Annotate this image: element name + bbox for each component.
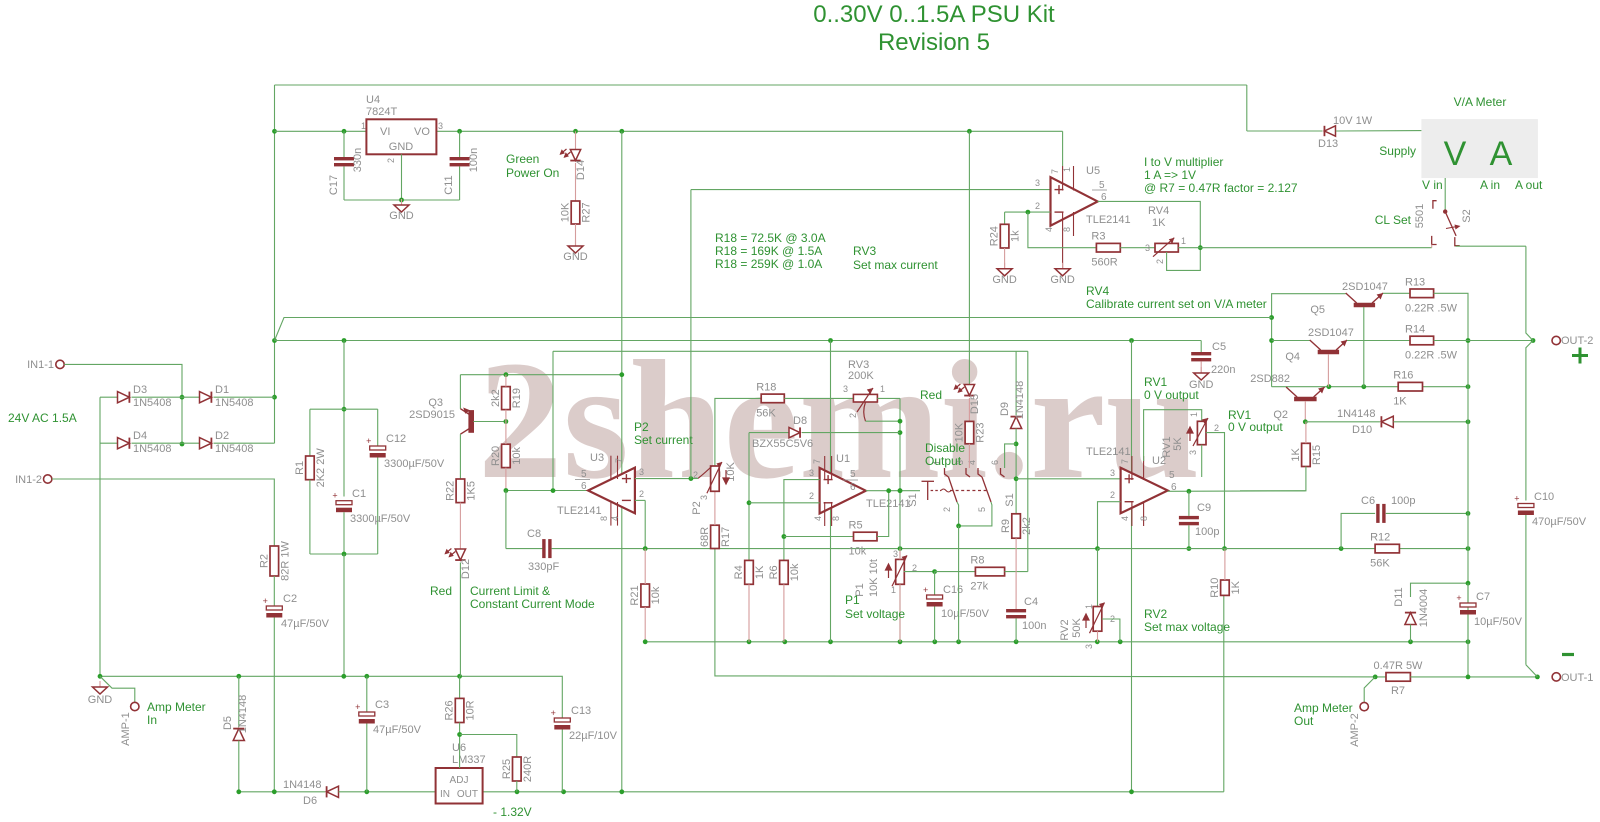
wire D13 to meter — [1336, 130, 1422, 132]
capacitor C2 47uF/50V — [263, 596, 283, 618]
node R19 top — [504, 372, 509, 377]
wire R18 to RV3 — [784, 397, 853, 399]
svg-text:2SD882: 2SD882 — [1250, 373, 1290, 385]
wire RV1 pin1 loop — [1144, 410, 1202, 461]
wire C9 bottom lead — [1188, 525, 1190, 548]
svg-text:56K: 56K — [1370, 558, 1390, 570]
node gnd bus D5 — [236, 674, 241, 679]
svg-text:U5: U5 — [1086, 165, 1100, 177]
regulator U6 LM337 — [436, 768, 483, 804]
wire vertical x830 — [830, 341, 832, 642]
wire C4 bottom lead — [1015, 618, 1017, 641]
svg-text:2K2 2W: 2K2 2W — [315, 448, 327, 488]
svg-text:GND: GND — [1189, 379, 1214, 391]
wire U3 pin3 — [635, 478, 691, 480]
svg-text:R14: R14 — [1405, 324, 1425, 336]
capacitor C12 3300uF/50V — [366, 436, 386, 458]
svg-text:1: 1 — [1062, 167, 1072, 172]
op-amp U5 TLE2141 — [1051, 177, 1098, 226]
svg-text:0 V output: 0 V output — [1228, 420, 1283, 434]
svg-text:+: + — [1456, 593, 1461, 603]
node C11 top — [457, 129, 462, 134]
svg-text:Red: Red — [430, 584, 452, 598]
node y554 — [342, 552, 347, 557]
wire P2 to R17 — [714, 491, 716, 525]
svg-text:TLE2141: TLE2141 — [1086, 214, 1131, 226]
potentiometer RV4 1K — [1153, 238, 1178, 257]
svg-text:R22: R22 — [444, 481, 456, 501]
svg-text:0.22R .5W: 0.22R .5W — [1405, 350, 1458, 362]
zener D13 10V 1W — [1324, 126, 1335, 136]
svg-text:Set current: Set current — [634, 433, 693, 447]
resistor R12 56K — [1375, 544, 1399, 553]
wire vertical x621 — [621, 131, 623, 792]
resistor R9 2k2 — [1012, 514, 1021, 538]
svg-text:A in: A in — [1480, 178, 1500, 192]
wire to D13 — [1247, 130, 1323, 132]
wire C8 left — [506, 548, 544, 550]
wire C6 right — [1386, 512, 1468, 514]
connector OUT-2 — [1552, 336, 1560, 344]
RV1 arrow — [1187, 427, 1193, 441]
capacitor C11 100n — [450, 157, 470, 166]
svg-text:10K: 10K — [560, 202, 572, 222]
resistor R13 0.22R .5W — [1410, 289, 1434, 298]
resistor R16 1K — [1398, 382, 1422, 391]
svg-text:100p: 100p — [1391, 495, 1415, 507]
potentiometer P2 10K — [707, 462, 722, 493]
op-amp U2 TLE2141 — [1121, 468, 1168, 514]
svg-text:C11: C11 — [443, 175, 455, 194]
capacitor C4 100n — [1006, 609, 1026, 618]
wire to OUT-2 — [1468, 340, 1533, 342]
wire stub — [561, 717, 563, 719]
wire Q3 emitter row — [460, 374, 621, 376]
wire bus y641 — [645, 641, 1468, 643]
svg-text:Amp Meter: Amp Meter — [1294, 701, 1353, 715]
wire U2 pin3 row — [1016, 478, 1121, 480]
svg-text:Power On: Power On — [506, 166, 559, 180]
svg-text:RV3: RV3 — [853, 244, 876, 258]
node C6 left — [1339, 546, 1344, 551]
svg-text:LM337: LM337 — [452, 754, 486, 766]
svg-text:P1: P1 — [845, 593, 860, 607]
U3 pin5 tick — [575, 479, 590, 481]
svg-text:Red: Red — [920, 388, 942, 402]
U5 pin5 tick — [1092, 189, 1107, 191]
svg-text:27k: 27k — [970, 581, 988, 593]
svg-text:3: 3 — [639, 467, 644, 477]
U1 pins 7 1 — [825, 456, 832, 480]
node C9 bottom — [1187, 546, 1192, 551]
transistor Q4 2SD1047 — [1310, 340, 1347, 352]
svg-text:6: 6 — [990, 460, 1000, 465]
LED D15 red — [964, 385, 974, 396]
svg-text:S2: S2 — [1461, 209, 1473, 222]
node U3 pin3 P2 — [689, 476, 694, 481]
node bracket y317 — [1269, 315, 1274, 320]
wire C16 bottom lead — [934, 607, 936, 642]
svg-text:100n: 100n — [468, 148, 480, 172]
svg-text:C8: C8 — [527, 528, 541, 540]
node gnd bus D12-R26 — [457, 674, 462, 679]
svg-text:C16: C16 — [943, 584, 963, 596]
wire U3 pin2 down — [644, 500, 646, 548]
wire R15 to U2 out — [1240, 467, 1306, 491]
diode D11 1N4004 — [1405, 613, 1416, 625]
connector IN1-1 — [56, 360, 64, 368]
svg-text:5: 5 — [1099, 180, 1105, 191]
svg-text:D8: D8 — [793, 415, 807, 427]
potentiometer RV3 200K — [853, 388, 877, 421]
svg-text:D15: D15 — [969, 394, 981, 414]
svg-text:5501: 5501 — [1414, 204, 1426, 228]
wire AMP-2 drop — [1364, 677, 1375, 702]
svg-text:1K: 1K — [1230, 580, 1242, 594]
resistor R15 1K — [1302, 443, 1311, 466]
svg-text:A: A — [1490, 135, 1513, 173]
node AMP-2 R7 — [1373, 675, 1378, 680]
node bottom D5 — [236, 789, 241, 794]
node Q5 base — [1361, 384, 1366, 389]
connector AMP-2 — [1360, 702, 1368, 710]
svg-text:Supply: Supply — [1379, 144, 1416, 158]
svg-text:R16: R16 — [1393, 370, 1413, 382]
svg-text:S1: S1 — [907, 493, 919, 506]
wire comp row right — [1098, 548, 1469, 550]
svg-text:BZX55C5V6: BZX55C5V6 — [752, 438, 813, 450]
svg-text:C12: C12 — [386, 433, 406, 445]
wire R26 to U6 ADJ — [459, 723, 461, 769]
node bottom x1131 — [1129, 789, 1134, 794]
wire D6 to U6 — [339, 791, 436, 793]
svg-text:100n: 100n — [1022, 620, 1046, 632]
U2 pins 8 4 — [1132, 502, 1144, 526]
wire corner x1246 down — [1246, 85, 1248, 131]
node bridge mid top — [180, 395, 185, 400]
svg-text:GND: GND — [389, 141, 414, 153]
node bottom R25 — [515, 789, 520, 794]
svg-text:2: 2 — [848, 413, 858, 418]
svg-text:IN1-1: IN1-1 — [27, 359, 54, 371]
resistor R1 2K2 2W — [306, 456, 315, 480]
wire C12 top lead — [377, 409, 379, 446]
svg-text:D6: D6 — [303, 795, 317, 807]
wire R21 top lead — [644, 549, 646, 584]
svg-text:C10: C10 — [1534, 491, 1554, 503]
U4 pin2 stub — [401, 154, 403, 200]
wire contact6 up — [1005, 444, 1017, 468]
wire U5 pin7 drop — [1062, 131, 1064, 166]
wire top rail y85 — [275, 84, 1247, 86]
op-amp U1 TLE2141 — [820, 468, 866, 514]
svg-text:R10: R10 — [1209, 578, 1221, 598]
wire RV2 pin1 lead — [1097, 549, 1099, 607]
svg-text:330pF: 330pF — [528, 561, 559, 573]
svg-text:24V AC 1.5A: 24V AC 1.5A — [8, 411, 77, 425]
wire R7 to OUT-1 — [1410, 676, 1537, 678]
capacitor C16 10uF/50V — [923, 585, 943, 607]
svg-text:P2: P2 — [634, 420, 649, 434]
svg-text:220n: 220n — [1211, 364, 1235, 376]
svg-text:+: + — [263, 596, 268, 606]
node gnd bus C1 — [341, 674, 346, 679]
svg-text:3: 3 — [1084, 644, 1094, 649]
svg-text:6: 6 — [850, 482, 856, 493]
svg-text:AMP-2: AMP-2 — [1349, 713, 1361, 747]
wire R1 top lead — [309, 409, 311, 456]
svg-text:10k: 10k — [511, 447, 523, 465]
svg-text:R18: R18 — [756, 381, 776, 393]
node D14 top — [573, 129, 578, 134]
svg-text:Q4: Q4 — [1285, 351, 1300, 363]
svg-text:D11: D11 — [1393, 587, 1405, 606]
wire U6 out row — [483, 791, 1224, 793]
LED D12 red current-limit — [455, 549, 465, 560]
wire R23-S1 contact3 — [968, 444, 970, 468]
svg-text:CL Set: CL Set — [1375, 213, 1412, 227]
wire R19 top lead — [505, 375, 507, 387]
node C17 top — [342, 129, 347, 134]
ground U5 — [1055, 263, 1070, 276]
svg-text:8: 8 — [831, 516, 841, 521]
wire to R8 — [935, 571, 976, 573]
svg-text:U4: U4 — [366, 94, 380, 106]
wire Q5 emitter to R13 — [1383, 292, 1410, 294]
svg-text:56K: 56K — [756, 407, 776, 419]
P2 wiper stub — [698, 466, 712, 478]
wire C2 down to bottom row — [273, 618, 275, 792]
svg-text:TLE2141: TLE2141 — [557, 505, 602, 517]
svg-text:10K 10t: 10K 10t — [868, 559, 880, 597]
ground U4 — [394, 199, 409, 212]
node Q2 base D10 — [1303, 419, 1308, 424]
ground R24 — [997, 263, 1012, 276]
node rail340 x344 — [342, 338, 347, 343]
diode D9 1N4148 — [1011, 417, 1022, 429]
svg-text:A out: A out — [1515, 178, 1543, 192]
wire vertical x969 to D15 — [968, 131, 970, 385]
resistor R23 10K — [965, 421, 974, 443]
svg-text:C4: C4 — [1024, 596, 1038, 608]
wire D14 top lead — [575, 131, 577, 151]
svg-text:D12: D12 — [460, 559, 472, 579]
switch S1 disable output — [922, 468, 1005, 502]
svg-text:5: 5 — [1169, 470, 1175, 481]
wire U4 gnd row — [344, 199, 460, 201]
wire RV4 wiper loop — [1167, 248, 1201, 271]
svg-text:7: 7 — [1050, 169, 1060, 174]
node P1 wiper — [932, 569, 937, 574]
wire rail317 into bracket — [1269, 317, 1271, 319]
RV2 arrow — [1083, 614, 1089, 628]
svg-text:C3: C3 — [375, 699, 389, 711]
svg-text:P2: P2 — [691, 501, 703, 514]
wire U5 pin3 row — [691, 189, 1051, 191]
resistor R18 56K — [761, 394, 784, 403]
svg-text:68R: 68R — [699, 527, 711, 547]
svg-text:1N4148: 1N4148 — [1337, 408, 1376, 420]
node comp row x1468 — [1466, 546, 1471, 551]
svg-text:2: 2 — [809, 491, 814, 501]
ground R27 — [568, 240, 583, 253]
wire R10 top lead — [1224, 549, 1226, 580]
capacitor C9 100p — [1179, 516, 1199, 525]
wire D12 to gnd bus — [459, 563, 461, 677]
wire x344 to gnd bus — [343, 554, 345, 676]
wire C1 bottom lead — [343, 512, 345, 554]
svg-text:1: 1 — [1181, 236, 1186, 246]
transistor Q2 2SD882 — [1286, 387, 1325, 399]
wire D8 left row — [749, 432, 790, 434]
svg-text:+: + — [355, 702, 360, 712]
svg-text:1N5408: 1N5408 — [215, 397, 254, 409]
node x1468 y340 — [1466, 338, 1471, 343]
node bus D11 — [1408, 639, 1413, 644]
wire D14-R27 — [575, 163, 577, 201]
svg-text:Set max voltage: Set max voltage — [1144, 620, 1230, 634]
svg-text:Output: Output — [925, 454, 962, 468]
svg-text:D1: D1 — [215, 384, 229, 396]
svg-text:1: 1 — [880, 384, 885, 394]
svg-text:Current Limit &: Current Limit & — [470, 584, 550, 598]
wire C7 top lead — [1467, 583, 1469, 603]
wire D3 left — [100, 396, 119, 398]
wire C17 bottom lead — [343, 167, 345, 201]
wire C5 gnd lead — [1200, 361, 1202, 373]
svg-text:4: 4 — [610, 516, 620, 521]
node R10 top — [1222, 546, 1227, 551]
capacitor C13 22uF/10V — [551, 708, 571, 730]
svg-text:10µF/50V: 10µF/50V — [941, 608, 990, 620]
wire Q4 collector row — [1272, 340, 1310, 342]
wire D5 bottom lead — [238, 741, 240, 792]
svg-text:1: 1 — [1189, 412, 1199, 417]
svg-text:1K: 1K — [1393, 396, 1407, 408]
node R20 bottom — [504, 488, 509, 493]
svg-text:6: 6 — [581, 481, 587, 492]
potentiometer P1 10K 10t — [892, 555, 907, 586]
svg-text:GND: GND — [389, 210, 414, 222]
wire vertical x1131 — [1131, 341, 1133, 792]
wire rail y131 left of U4 — [275, 130, 367, 132]
svg-text:10k: 10k — [650, 586, 662, 604]
wire IN1-1 to bridge — [64, 364, 182, 444]
wire P1 top lead — [899, 549, 901, 560]
U3 pins 7 1 — [611, 456, 618, 479]
wire U1 pin3 to R6 — [784, 480, 820, 561]
resistor R26 10R — [455, 698, 464, 722]
svg-text:3300µF/50V: 3300µF/50V — [384, 458, 445, 470]
capacitor C17 330n — [334, 157, 354, 166]
wire U5 pin2 row — [1005, 211, 1051, 213]
wire rail y131 right of U4 — [436, 130, 1062, 132]
node R5 left — [782, 534, 787, 539]
svg-text:R5: R5 — [849, 520, 863, 532]
wire Q3 base — [473, 421, 506, 423]
svg-text:3: 3 — [699, 495, 709, 500]
svg-text:Set max current: Set max current — [853, 258, 938, 272]
wire compensation row — [552, 548, 1098, 550]
svg-text:C7: C7 — [1476, 591, 1490, 603]
svg-text:3: 3 — [1188, 450, 1198, 455]
wire C1-C12 bottom row — [310, 553, 378, 555]
diode D10 1N4148 — [1381, 416, 1393, 427]
svg-text:OUT-2: OUT-2 — [1561, 335, 1593, 347]
svg-text:8: 8 — [599, 516, 609, 521]
svg-text:VI: VI — [380, 126, 390, 138]
node OUT-2 — [1531, 338, 1536, 343]
svg-text:4: 4 — [1044, 227, 1054, 232]
node x274-y131 — [272, 129, 277, 134]
svg-text:R27: R27 — [581, 202, 593, 222]
wire R8 right vertical — [1027, 351, 1029, 571]
wire C6 left loop — [1341, 513, 1375, 548]
wire S1 to bus — [958, 526, 960, 642]
wire S2 to OUT-2 — [1526, 246, 1533, 340]
svg-text:C17: C17 — [328, 175, 340, 195]
capacitor C10 470uF/50V — [1514, 494, 1534, 516]
U5 pins 8 4 — [1063, 212, 1074, 236]
svg-text:1N5408: 1N5408 — [133, 397, 172, 409]
svg-text:2: 2 — [1035, 201, 1040, 211]
wire P1 wiper to C16 — [904, 571, 935, 573]
node R21 top — [643, 546, 648, 551]
resistor R27 10K — [571, 201, 580, 224]
svg-text:OUT: OUT — [457, 789, 478, 800]
svg-text:R25: R25 — [501, 759, 513, 779]
svg-text:R3: R3 — [1091, 231, 1105, 243]
svg-text:5: 5 — [850, 469, 856, 480]
svg-text:AMP-1: AMP-1 — [120, 712, 132, 746]
P1 arrow — [886, 564, 892, 578]
node x274-D1 — [272, 395, 277, 400]
zener D8 BZX55C5V6 — [789, 427, 800, 437]
svg-text:U6: U6 — [452, 742, 466, 754]
wire S2 to OUT2 vertical — [1456, 245, 1526, 248]
node D8 right — [898, 430, 903, 435]
node ADJ — [457, 732, 462, 737]
svg-text:470µF/50V: 470µF/50V — [1532, 516, 1587, 528]
wire S1 pin5 loop — [959, 502, 992, 526]
wire R5 left row — [784, 536, 854, 538]
svg-text:Q3: Q3 — [428, 397, 443, 409]
wire C11 top lead — [459, 131, 461, 157]
svg-text:240R: 240R — [522, 756, 534, 782]
wire C13 bottom lead — [561, 730, 563, 792]
wire IN1-2 to R2 — [52, 479, 274, 546]
svg-text:C13: C13 — [571, 705, 591, 717]
capacitor C3 47uF/50V — [355, 702, 375, 724]
wire C16 top lead — [934, 572, 936, 595]
svg-text:47µF/50V: 47µF/50V — [373, 724, 422, 736]
wire C9 top lead — [1188, 491, 1190, 516]
wire D4 left — [100, 442, 119, 444]
node RV3 wiper — [898, 419, 903, 424]
wire RV3 pin1 — [877, 397, 900, 399]
wire R2-C2 — [273, 576, 275, 606]
diode D1 1N5408 — [200, 392, 212, 403]
svg-text:C1: C1 — [352, 488, 366, 500]
potentiometer RV1 5K — [1193, 418, 1208, 446]
wire Q3 collector to R22 — [459, 434, 461, 479]
svg-text:Out: Out — [1294, 714, 1314, 728]
wire D3-D1 — [132, 396, 202, 398]
wire D11 bottom lead — [1410, 625, 1412, 642]
wire RV2 wiper down — [1102, 619, 1120, 642]
node U1 out x900 dot — [898, 488, 903, 493]
svg-text:1N5408: 1N5408 — [133, 443, 172, 455]
